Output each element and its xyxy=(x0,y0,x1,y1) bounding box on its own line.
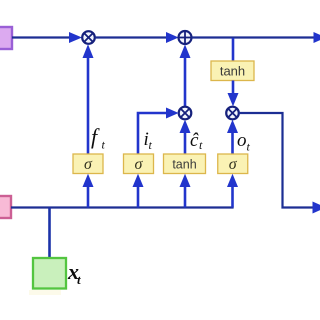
label i_t xyxy=(144,129,153,152)
wire output gate sigma box up into output multiply xyxy=(227,120,238,154)
svg-text:σ: σ xyxy=(229,156,238,173)
cell state input box (purple) xyxy=(0,27,12,49)
wire candidate tanh box up into multiply xyxy=(180,120,191,154)
sigma box input gate xyxy=(124,154,154,174)
label o_t xyxy=(237,130,251,154)
svg-text:t: t xyxy=(77,272,81,287)
wire up-arrow into forget sigma box xyxy=(83,174,94,208)
wire up-arrow into candidate tanh box xyxy=(180,174,191,208)
wire up-arrow into output sigma box xyxy=(227,174,238,208)
wire c-line segment from forget multiply to add node xyxy=(95,32,179,43)
wire branch from c-line down into top tanh box xyxy=(232,38,235,62)
faint artifact bar below x_t box xyxy=(29,290,61,295)
add node xyxy=(179,31,192,44)
sigma box forget gate xyxy=(73,154,103,174)
wire up-arrow into input sigma box xyxy=(133,174,144,208)
sigma box output gate xyxy=(218,154,248,174)
wire forget gate vertical from sigma box up to multiply xyxy=(83,44,94,154)
wire h-line from pink box to output gate branch xyxy=(11,206,234,208)
label x_t xyxy=(67,259,81,287)
svg-text:o: o xyxy=(237,130,247,151)
wire c-line output segment to right edge xyxy=(192,32,320,43)
label f_t xyxy=(91,124,106,152)
svg-text:σ: σ xyxy=(135,156,144,173)
wire input gate from sigma box up then right into multiply xyxy=(138,108,179,155)
wire candidate product up into add node xyxy=(180,45,191,107)
svg-text:σ: σ xyxy=(84,156,93,173)
wire branch down to x_t input box xyxy=(48,208,51,259)
input box x_t (green) xyxy=(33,258,66,289)
wire c-line segment from purple box to forget multiply xyxy=(12,32,82,43)
hidden state input box (pink) xyxy=(0,196,11,218)
multiply node (input gate x candidate) xyxy=(179,107,192,120)
candidate tanh box xyxy=(164,154,206,174)
svg-text:tanh: tanh xyxy=(172,158,196,172)
top tanh box xyxy=(211,61,254,81)
wire hidden output: right from output multiply, down, then right to edge xyxy=(239,113,320,214)
svg-text:tanh: tanh xyxy=(220,64,245,79)
svg-text:ĉ: ĉ xyxy=(190,130,199,151)
multiply node (forget gate) xyxy=(82,31,95,44)
multiply node (output gate) xyxy=(226,107,239,120)
label c-hat_t xyxy=(190,130,203,152)
wire from top tanh box down into output multiply xyxy=(228,81,239,107)
